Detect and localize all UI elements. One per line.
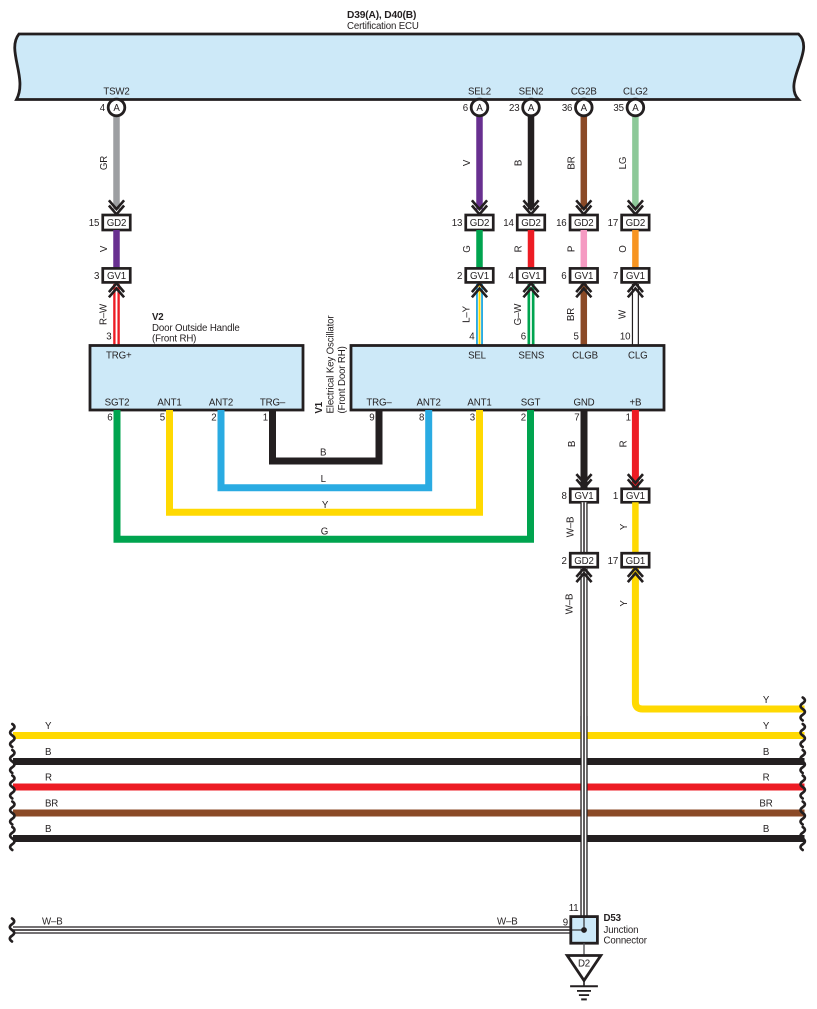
wire B from SEN2 — [528, 115, 535, 210]
wire R from +B — [632, 410, 639, 489]
bus wire R — [13, 784, 805, 791]
arrows into GV1 1 — [628, 474, 643, 483]
svg-text:GD2: GD2 — [626, 218, 645, 229]
svg-text:5: 5 — [160, 413, 165, 424]
svg-text:Y: Y — [619, 523, 630, 530]
arrows out of GV1 col SEN2 — [523, 283, 538, 292]
svg-text:CLG2: CLG2 — [623, 87, 648, 98]
svg-text:R: R — [763, 773, 770, 784]
arrows out of GV1 col TSW2 — [109, 283, 124, 292]
wire to ground — [583, 943, 585, 955]
svg-text:SENS: SENS — [518, 351, 544, 362]
junction dot — [581, 927, 587, 933]
connector GV1 pin 4 — [517, 268, 545, 282]
svg-text:10: 10 — [620, 332, 631, 343]
svg-text:3: 3 — [470, 413, 475, 424]
svg-text:11: 11 — [569, 903, 579, 914]
svg-text:A: A — [528, 103, 535, 114]
arrows into GD2 — [523, 200, 538, 209]
svg-text:BR: BR — [759, 799, 772, 810]
connector GD2 pin 2 — [570, 553, 598, 567]
svg-text:Junction: Junction — [604, 925, 639, 936]
svg-text:GV1: GV1 — [575, 491, 594, 502]
svg-text:Y: Y — [763, 721, 770, 732]
component V1 Electrical Key Oscillator (Front Door RH) — [351, 346, 664, 411]
svg-text:W: W — [617, 309, 628, 319]
svg-text:4: 4 — [469, 332, 475, 343]
connector GV1 pin 6 — [570, 268, 598, 282]
svg-text:R: R — [618, 440, 629, 447]
svg-text:Electrical Key Oscillator: Electrical Key Oscillator — [326, 315, 337, 414]
svg-text:R–W: R–W — [99, 303, 110, 325]
wire R-W striped — [113, 284, 120, 345]
svg-text:4: 4 — [509, 271, 515, 282]
svg-text:P: P — [566, 246, 577, 252]
wire W white — [632, 284, 639, 345]
svg-text:BR: BR — [566, 156, 577, 169]
svg-text:W–B: W–B — [565, 594, 576, 615]
wire Y long to right — [635, 568, 804, 709]
svg-text:SGT2: SGT2 — [105, 398, 130, 409]
svg-text:Door Outside Handle: Door Outside Handle — [152, 323, 240, 334]
svg-text:V: V — [99, 245, 110, 252]
svg-text:CG2B: CG2B — [571, 87, 597, 98]
svg-text:GD2: GD2 — [574, 218, 593, 229]
svg-text:GV1: GV1 — [574, 271, 593, 282]
svg-text:A: A — [632, 103, 639, 114]
svg-text:5: 5 — [574, 332, 579, 343]
cut mark BR left — [10, 802, 14, 825]
wire GR from TSW2 — [113, 115, 120, 210]
svg-text:6: 6 — [463, 103, 468, 114]
svg-text:Y: Y — [45, 721, 52, 732]
svg-text:GV1: GV1 — [626, 491, 645, 502]
connector GD2 pin 17 — [622, 215, 650, 230]
svg-text:V: V — [462, 159, 473, 166]
bus wire BR — [13, 810, 805, 817]
svg-text:B: B — [567, 441, 578, 447]
ground stem — [583, 981, 585, 987]
cut mark BR right — [801, 802, 805, 825]
svg-text:(Front RH): (Front RH) — [152, 334, 196, 345]
svg-text:GD2: GD2 — [574, 556, 593, 567]
svg-text:2: 2 — [211, 413, 216, 424]
svg-text:ANT1: ANT1 — [467, 398, 491, 409]
svg-text:B: B — [45, 747, 51, 758]
svg-text:BR: BR — [566, 308, 577, 321]
wire O — [632, 230, 639, 268]
svg-text:16: 16 — [556, 218, 566, 229]
svg-text:1: 1 — [613, 491, 618, 502]
svg-text:GR: GR — [99, 156, 110, 170]
arrows into GD2 — [109, 200, 124, 209]
svg-text:SEL: SEL — [468, 351, 487, 362]
svg-text:GD2: GD2 — [470, 218, 489, 229]
arrows into GD2 — [628, 200, 643, 209]
svg-text:SGT: SGT — [521, 398, 541, 409]
svg-text:SEL2: SEL2 — [468, 87, 491, 98]
svg-text:GV1: GV1 — [107, 271, 126, 282]
connector GV1 pin 3 — [103, 268, 131, 282]
svg-text:7: 7 — [574, 413, 579, 424]
connector GD2 pin 13 — [466, 215, 494, 230]
arrows out of GV1 col CLG2 — [628, 283, 643, 292]
svg-text:W–B: W–B — [42, 917, 63, 928]
svg-text:ANT2: ANT2 — [209, 398, 233, 409]
junction connector D53 box — [571, 917, 598, 944]
connector GD2 pin 14 — [517, 215, 545, 230]
svg-text:B: B — [320, 448, 326, 459]
svg-text:6: 6 — [561, 271, 566, 282]
svg-text:CLGB: CLGB — [572, 351, 598, 362]
svg-text:15: 15 — [89, 218, 99, 229]
svg-text:L: L — [321, 474, 327, 485]
bus wire B — [13, 835, 805, 842]
wire V from SEL2 — [476, 115, 483, 210]
svg-text:23: 23 — [509, 103, 519, 114]
svg-text:A: A — [581, 103, 588, 114]
wire V — [113, 230, 120, 268]
wire R — [528, 230, 535, 268]
svg-text:8: 8 — [419, 413, 424, 424]
svg-text:GV1: GV1 — [470, 271, 489, 282]
svg-text:9: 9 — [369, 413, 374, 424]
wire BR from CG2B — [581, 115, 588, 210]
ground triangle D2 — [567, 956, 601, 981]
svg-text:R: R — [514, 245, 525, 252]
cut mark B left — [10, 750, 14, 773]
bus wire B — [13, 758, 805, 765]
svg-text:LG: LG — [618, 157, 629, 170]
arrows into GD2 — [576, 200, 591, 209]
svg-text:1: 1 — [626, 413, 631, 424]
svg-text:Y: Y — [763, 695, 770, 706]
svg-text:V1: V1 — [314, 401, 325, 413]
connector GD1 pin 17 — [622, 553, 650, 567]
svg-text:G: G — [462, 245, 473, 252]
svg-text:7: 7 — [613, 271, 618, 282]
svg-text:14: 14 — [503, 218, 514, 229]
svg-text:GND: GND — [573, 398, 594, 409]
arrows out of GV1 col CG2B — [576, 283, 591, 292]
pin 36 circle A — [576, 99, 593, 116]
svg-text:Certification ECU: Certification ECU — [347, 21, 419, 32]
svg-text:35: 35 — [613, 103, 623, 114]
arrows out of GV1 col SEL2 — [472, 283, 487, 292]
svg-text:Y: Y — [322, 500, 329, 511]
svg-text:D2: D2 — [578, 959, 590, 970]
svg-text:B: B — [763, 747, 769, 758]
pin 6 circle A — [471, 99, 488, 116]
pin 23 circle A — [523, 99, 540, 116]
cut mark B left — [10, 827, 14, 850]
arrows out of GD2 2 — [576, 568, 591, 577]
cut mark R left — [10, 776, 14, 799]
cut mark R right — [801, 776, 805, 799]
wire Y ANT1 to ANT1 — [170, 410, 480, 512]
svg-text:SEN2: SEN2 — [519, 87, 544, 98]
svg-text:GV1: GV1 — [626, 271, 645, 282]
connector GV1 pin 7 — [622, 268, 650, 282]
pin 35 circle A — [627, 99, 644, 116]
svg-text:17: 17 — [608, 218, 618, 229]
wire G SGT2 to SGT — [117, 410, 531, 539]
wire W-B crossing bus — [581, 716, 588, 917]
wire G-W striped — [528, 284, 535, 345]
svg-text:2: 2 — [562, 556, 567, 567]
wire W-B long — [581, 568, 588, 917]
svg-text:B: B — [514, 160, 525, 166]
svg-text:4: 4 — [100, 103, 106, 114]
svg-text:ANT2: ANT2 — [417, 398, 441, 409]
svg-text:W–B: W–B — [566, 517, 577, 538]
svg-text:B: B — [763, 824, 769, 835]
arrows into GV1 8 — [576, 474, 591, 483]
ground symbol — [570, 985, 598, 987]
svg-text:36: 36 — [562, 103, 572, 114]
svg-text:D53: D53 — [604, 913, 622, 924]
svg-text:TRG–: TRG– — [260, 398, 286, 409]
svg-text:W–B: W–B — [497, 917, 518, 928]
svg-text:6: 6 — [107, 413, 112, 424]
svg-text:GD1: GD1 — [626, 556, 645, 567]
cut mark Y right — [801, 724, 805, 747]
connector GD2 pin 15 — [103, 215, 131, 230]
wire BR run3 — [581, 284, 588, 345]
svg-text:V2: V2 — [152, 312, 164, 323]
wire G — [476, 230, 483, 268]
svg-text:A: A — [113, 103, 120, 114]
svg-text:9: 9 — [563, 918, 568, 929]
svg-text:Y: Y — [619, 600, 630, 607]
svg-text:O: O — [618, 245, 629, 253]
svg-text:L–Y: L–Y — [462, 305, 473, 322]
wire P — [581, 230, 588, 268]
wire LG from CLG2 — [632, 115, 639, 210]
D53 internal stripes — [583, 917, 585, 930]
svg-text:Connector: Connector — [604, 936, 648, 947]
svg-text:TRG–: TRG– — [366, 398, 392, 409]
svg-text:R: R — [45, 773, 52, 784]
wire B from GND — [581, 410, 588, 489]
svg-text:17: 17 — [608, 556, 618, 567]
svg-text:TRG+: TRG+ — [106, 351, 132, 362]
svg-text:8: 8 — [562, 491, 567, 502]
svg-text:3: 3 — [106, 332, 111, 343]
wire L ANT2 to ANT2 — [221, 410, 429, 488]
wire L-Y striped — [476, 284, 483, 345]
svg-text:A: A — [476, 103, 483, 114]
ECU D39/D40 Certification ECU band — [15, 34, 804, 100]
svg-text:D39(A), D40(B): D39(A), D40(B) — [347, 10, 416, 21]
svg-text:GV1: GV1 — [522, 271, 541, 282]
svg-text:13: 13 — [452, 218, 462, 229]
svg-text:+B: +B — [629, 398, 641, 409]
connector GV1 pin 2 — [466, 268, 494, 282]
cut mark B right — [801, 750, 805, 773]
component V2 Door Outside Handle (Front RH) — [90, 346, 303, 411]
connector GD2 pin 16 — [570, 215, 598, 230]
bus wire Y — [13, 732, 805, 739]
arrows out of GD1 17 — [628, 568, 643, 577]
svg-text:2: 2 — [457, 271, 462, 282]
cut mark Y jog right — [801, 698, 805, 721]
pin 4 circle A — [108, 99, 125, 116]
wire W-B upper — [581, 502, 588, 553]
svg-text:B: B — [45, 824, 51, 835]
cut mark Y left — [10, 724, 14, 747]
cut mark B right — [801, 827, 805, 850]
svg-text:TSW2: TSW2 — [103, 87, 129, 98]
svg-text:(Front Door RH): (Front Door RH) — [337, 346, 348, 413]
cut mark W-B left — [10, 919, 14, 942]
svg-text:2: 2 — [521, 413, 526, 424]
wire B TRG- to TRG- — [273, 410, 380, 461]
svg-text:GD2: GD2 — [521, 218, 540, 229]
svg-text:BR: BR — [45, 799, 58, 810]
connector GV1 pin 8 — [570, 489, 598, 503]
arrows into GD2 — [472, 200, 487, 209]
wire Y GV1-GD1 — [632, 502, 639, 553]
svg-text:3: 3 — [94, 271, 99, 282]
connector GV1 pin 1 — [622, 489, 650, 503]
svg-text:CLG: CLG — [628, 351, 647, 362]
svg-text:G: G — [321, 527, 328, 538]
svg-text:1: 1 — [263, 413, 268, 424]
wire W-B bottom horizontal — [13, 927, 571, 934]
svg-text:ANT1: ANT1 — [157, 398, 181, 409]
svg-text:GD2: GD2 — [107, 218, 126, 229]
svg-text:G–W: G–W — [513, 303, 524, 326]
svg-text:6: 6 — [521, 332, 526, 343]
